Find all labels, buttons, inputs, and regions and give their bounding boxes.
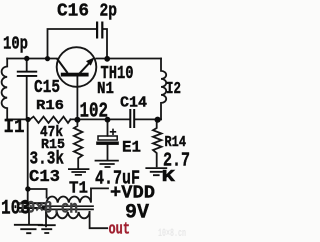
- transistor Q1 base bar: [61, 73, 89, 77]
- wire C14 right to I2/R14 node: [135, 118, 161, 120]
- capacitor C15 leads: [26, 59, 28, 120]
- node dot base / R15: [74, 117, 80, 123]
- wire to E1/C14: [71, 118, 130, 120]
- capacitor C13 bottom lead: [28, 209, 30, 224]
- capacitor C13 plates: [18, 202, 47, 204]
- svg-text:2p: 2p: [100, 2, 118, 22]
- svg-text:R16: R16: [36, 98, 64, 114]
- node dot C16 left: [45, 56, 50, 61]
- ground (E1): [95, 161, 119, 167]
- capacitor E1 plus sign: [110, 129, 116, 135]
- inductor I2: [161, 59, 166, 120]
- svg-text:102: 102: [80, 100, 109, 123]
- svg-text:10p: 10p: [3, 35, 28, 55]
- resistor R14 (2.7K) lead+zigzag: [153, 119, 162, 166]
- capacitor C16 plates: [96, 22, 98, 39]
- node dot C15 top: [24, 56, 29, 61]
- svg-text:out: out: [109, 220, 131, 239]
- node dot C13 / T1: [25, 186, 30, 191]
- svg-text:C14: C14: [120, 95, 147, 112]
- transformer T1 secondary winding: [46, 212, 90, 218]
- svg-text:10×8.cn: 10×8.cn: [158, 228, 186, 240]
- wire top C16 branch left: [48, 29, 97, 59]
- transistor Q1 circle: [57, 47, 97, 87]
- transistor Q1 emitter lead: [79, 61, 91, 74]
- capacitor C15 plates: [17, 71, 37, 73]
- ground (C13): [14, 225, 43, 233]
- wire rail left (to C13 node): [27, 119, 29, 202]
- wire T1 primary right to +VDD: [91, 187, 108, 189]
- svg-text:I1: I1: [4, 116, 25, 138]
- ground (T1 secondary): [38, 225, 56, 233]
- resistor R15 (3.3k) lead+zigzag: [74, 119, 83, 167]
- capacitor C14 plates: [129, 109, 131, 128]
- inductor I1: [2, 59, 8, 120]
- T1 secondary right lead + out line: [90, 212, 108, 228]
- transformer T1 primary winding: [47, 188, 91, 202]
- node dot C16 right / emitter: [104, 56, 110, 62]
- transistor Q1 collector lead: [57, 58, 68, 73]
- T1 secondary left lead: [45, 212, 47, 226]
- transistor Q1 base lead: [76, 76, 78, 119]
- wire main horizontal left (node A): [7, 58, 57, 60]
- svg-text:T1: T1: [69, 179, 88, 198]
- ground (R15): [68, 169, 89, 175]
- svg-text:I2: I2: [166, 80, 181, 99]
- node dot E1 top: [105, 117, 111, 123]
- svg-text:103: 103: [1, 197, 30, 220]
- resistor R16 (47k) zigzag: [30, 117, 71, 123]
- ground (R14): [145, 168, 167, 175]
- svg-text:E1: E1: [122, 139, 141, 157]
- svg-text:3.3k: 3.3k: [30, 149, 65, 170]
- transformer T1 core: [43, 206, 94, 209]
- wire main horizontal right (node B): [96, 58, 161, 60]
- capacitor E1 top plate (hollow): [98, 136, 117, 140]
- svg-text:N1: N1: [97, 80, 114, 99]
- wire bottom-left horizontal: [7, 118, 30, 120]
- capacitor E1 bottom plate: [96, 142, 119, 145]
- svg-text:C15: C15: [34, 78, 60, 98]
- capacitor E1 bottom lead: [107, 145, 109, 160]
- svg-text:C16: C16: [57, 1, 89, 22]
- wire top C16 branch right: [103, 29, 107, 57]
- wire y189 horizontal to T1: [28, 189, 47, 198]
- node dot C15 bottom / rail: [25, 117, 30, 122]
- svg-text:C13: C13: [29, 168, 60, 187]
- node dot I2 / R14: [155, 117, 161, 123]
- transistor Q1 emitter arrow: [86, 57, 95, 65]
- svg-text:K: K: [162, 167, 176, 186]
- capacitor E1 top lead: [107, 119, 109, 135]
